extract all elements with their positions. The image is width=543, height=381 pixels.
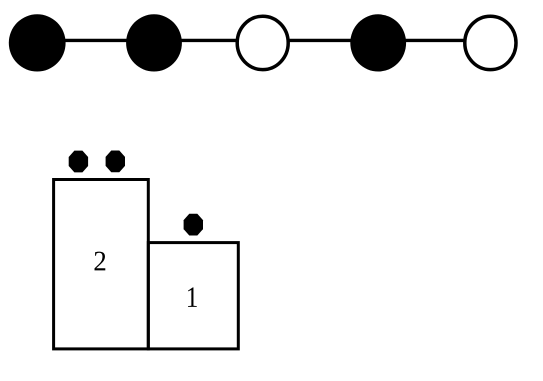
wire: horizontal line connecting the five beads	[37, 39, 490, 42]
node 4 (filled bead)	[350, 14, 406, 71]
node 3 (open bead)	[237, 16, 288, 69]
bead dot 1 above box 2	[69, 151, 88, 173]
label 2	[95, 252, 106, 271]
bead dot 2 above box 2	[106, 151, 125, 173]
box labelled 2	[54, 180, 149, 349]
box labelled 1	[148, 243, 238, 349]
bead dot above box 1	[184, 214, 203, 236]
node 2 (filled bead)	[126, 14, 182, 71]
node 5 (open bead)	[465, 16, 516, 69]
node 1 (filled bead)	[9, 14, 66, 71]
label 1	[188, 287, 197, 306]
